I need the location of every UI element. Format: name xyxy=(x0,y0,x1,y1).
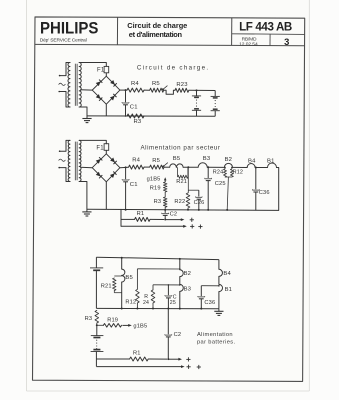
header divider page cell xyxy=(269,34,271,46)
capacitor C1 (charger) xyxy=(125,90,127,102)
svg-text:F1: F1 xyxy=(97,67,105,73)
wire B2 to B4 xyxy=(233,166,248,168)
svg-text:g1B5: g1B5 xyxy=(147,177,161,183)
resistor R3 (mains) xyxy=(163,197,167,207)
resistor R12 (battery) xyxy=(136,269,138,290)
heaters B4 B1 column (battery) xyxy=(218,260,220,270)
capacitor C2 (mains) xyxy=(164,210,166,213)
bridge diode D4 xyxy=(110,94,117,101)
fuse F1 (mains) xyxy=(104,144,109,151)
wire secondary top to fuse xyxy=(79,63,106,67)
svg-text:C2: C2 xyxy=(174,332,182,338)
capacitor C25 (mains) xyxy=(207,167,209,178)
transformer secondary winding xyxy=(79,63,81,108)
wire B4 to B1 xyxy=(255,167,267,169)
svg-text:C36: C36 xyxy=(259,190,270,196)
svg-text:R19: R19 xyxy=(107,318,118,324)
node g1B5 arrow (battery) xyxy=(122,324,129,326)
diode bridge (mains) xyxy=(92,154,120,182)
wire secondary bottom down xyxy=(79,107,87,116)
bridge diode D8 xyxy=(110,171,117,178)
wire B3 to B2 xyxy=(207,166,224,168)
heater B3 (mains) xyxy=(198,163,207,167)
junction dots on rail (mains) xyxy=(164,209,166,211)
resistor R1 (battery) xyxy=(130,357,149,361)
svg-text:Circuit de charge: Circuit de charge xyxy=(127,21,187,30)
wire secondary tap to bridge (mains) xyxy=(80,166,92,169)
wire bridge bottom down xyxy=(105,104,107,116)
junction dots (battery rail) xyxy=(121,308,123,310)
svg-text:B3: B3 xyxy=(203,156,211,162)
capacitor C36 (mains) xyxy=(255,168,257,190)
wire bridge+ to R4 xyxy=(120,89,127,91)
svg-text:R21: R21 xyxy=(101,283,112,289)
bridge diode D2 xyxy=(110,80,117,87)
plus mark A (battery) xyxy=(186,358,190,360)
svg-text:R5: R5 xyxy=(152,158,160,164)
plus marks B (battery) xyxy=(187,366,191,368)
R5 wiper arrow (mains) xyxy=(163,163,168,167)
R5 wiper arrow xyxy=(162,86,167,90)
resistor R22 (mains) xyxy=(187,167,189,193)
svg-text:R3: R3 xyxy=(154,199,162,205)
wire R5 to B5 xyxy=(164,166,170,168)
svg-text:12.02.54: 12.02.54 xyxy=(239,41,258,47)
svg-text:R12: R12 xyxy=(125,299,136,305)
battery BT2 (charged cells) xyxy=(214,91,216,97)
svg-text:Alimentation: Alimentation xyxy=(197,332,233,338)
wire R19 to R3 xyxy=(164,192,166,197)
svg-text:R19: R19 xyxy=(150,186,161,192)
wire fuse to bridge top (mains) xyxy=(105,150,107,154)
ground (charger) xyxy=(86,116,88,119)
wire primary top lead xyxy=(60,140,70,151)
output arrow B (mains) xyxy=(121,225,185,227)
output line A (battery) xyxy=(96,358,129,360)
svg-text:C1: C1 xyxy=(130,105,138,111)
svg-text:Dép' SERVICE Central: Dép' SERVICE Central xyxy=(40,37,87,43)
svg-text:et d'alimentation: et d'alimentation xyxy=(129,30,183,39)
wire primary bottom lead xyxy=(60,92,70,108)
capacitor C2 (battery) xyxy=(167,309,169,335)
node g1B5 arrow (mains) xyxy=(164,179,166,182)
fuse F1 xyxy=(104,66,109,72)
header divider 1 xyxy=(116,17,118,45)
resistor R23 xyxy=(175,88,189,92)
wire fuse to bridge top xyxy=(105,73,107,76)
output arrow A (battery) xyxy=(148,358,167,360)
bridge diode D5 xyxy=(96,157,103,164)
plus mark A (mains) xyxy=(190,219,194,221)
page edge bottom xyxy=(27,390,310,392)
top rail (battery) xyxy=(96,257,218,259)
wire primary top lead xyxy=(60,63,70,76)
svg-text:B4: B4 xyxy=(248,159,256,165)
svg-text:B5: B5 xyxy=(125,275,133,281)
resistor R4 (mains) xyxy=(129,165,144,169)
resistor R21 (mains, parallel B5) xyxy=(177,167,179,177)
wire primary bottom lead xyxy=(60,168,70,182)
wire R12 top bar xyxy=(137,268,179,270)
wire secondary tap to bridge xyxy=(80,89,92,91)
transformer primary winding xyxy=(68,63,70,108)
AC mains symbol xyxy=(59,83,65,85)
header bottom rule xyxy=(35,44,305,45)
resistor R3 (battery) xyxy=(95,310,99,323)
AC mains symbol xyxy=(59,159,65,161)
svg-text:B5: B5 xyxy=(173,156,181,162)
battery BT1 (charged cells) xyxy=(196,90,198,96)
resistors R24 R12 (parallel under B2) xyxy=(224,167,226,168)
svg-text:PHILIPS: PHILIPS xyxy=(40,20,99,38)
capacitor C25 (battery) xyxy=(167,285,169,295)
header divider 2 xyxy=(231,18,233,46)
resistor R5 (mains) xyxy=(150,165,164,169)
wire rail to output taps (mains) xyxy=(120,209,122,226)
resistor R3 (charger, in rail) xyxy=(127,114,144,118)
wire bridge+ to R4 (mains) xyxy=(120,166,129,169)
svg-text:g1B5: g1B5 xyxy=(133,324,147,330)
page edge right xyxy=(308,0,310,391)
capacitor C36 (battery) xyxy=(201,285,219,287)
svg-text:C26: C26 xyxy=(194,200,205,206)
svg-text:R24: R24 xyxy=(213,170,224,176)
heater B4 (mains) xyxy=(247,164,255,168)
battery cells column (battery supply) xyxy=(96,324,98,326)
wire jog R5 to R23 xyxy=(164,90,175,94)
negative rail (mains) xyxy=(87,209,279,210)
svg-text:R4: R4 xyxy=(132,158,140,164)
svg-text:B4: B4 xyxy=(223,271,231,277)
svg-text:R22: R22 xyxy=(174,199,185,205)
wire R4-R5 (mains) xyxy=(144,166,150,168)
output arrow B (battery) xyxy=(96,366,182,368)
svg-text:R4: R4 xyxy=(131,81,139,87)
svg-text:25: 25 xyxy=(170,300,176,306)
page edge left xyxy=(26,0,28,391)
diode bridge (charger) xyxy=(92,76,120,104)
header divider LF box horizontal xyxy=(232,33,305,36)
resistor R19 (mains) xyxy=(163,182,167,192)
svg-text:R1: R1 xyxy=(137,211,145,217)
capacitor C26 (mains) xyxy=(188,189,199,191)
svg-text:R21: R21 xyxy=(176,179,187,185)
svg-text:R23: R23 xyxy=(176,82,188,88)
wire secondary bottom down (mains) xyxy=(79,182,87,210)
wire R23 to batteries xyxy=(189,89,215,91)
svg-text:B2: B2 xyxy=(225,157,233,163)
bridge diode D3 xyxy=(96,94,103,101)
svg-text:3: 3 xyxy=(284,36,289,47)
svg-text:24: 24 xyxy=(143,300,149,306)
resistor R21 (battery, parallel B5) xyxy=(114,275,121,277)
wire secondary top to fuse (mains) xyxy=(79,140,106,143)
wire B5 to B3 xyxy=(183,166,198,168)
resistor R5 (charger) xyxy=(150,88,164,92)
svg-text:R3: R3 xyxy=(85,316,93,322)
bridge diode D6 xyxy=(110,157,117,164)
transformer core xyxy=(74,64,76,106)
resistor R1 (mains) xyxy=(135,217,150,221)
bottom rail (battery) xyxy=(96,307,218,309)
svg-text:C36: C36 xyxy=(204,300,215,306)
svg-text:R5: R5 xyxy=(152,81,160,87)
svg-text:R12: R12 xyxy=(233,170,244,176)
svg-text:C25: C25 xyxy=(215,181,226,187)
capacitor C1 (mains) xyxy=(125,167,127,179)
outer frame xyxy=(33,17,305,382)
transformer secondary winding xyxy=(79,140,81,181)
left battery lead xyxy=(95,257,97,268)
svg-text:R3: R3 xyxy=(134,119,142,125)
wire R24/C25 top bar xyxy=(153,284,180,286)
svg-text:Alimentation par secteur: Alimentation par secteur xyxy=(141,145,220,152)
svg-text:C1: C1 xyxy=(130,182,138,188)
output line A (mains) xyxy=(121,218,135,220)
heater B2 (mains) xyxy=(224,163,232,167)
bottom rail (charger) xyxy=(87,115,215,117)
svg-text:C2: C2 xyxy=(170,212,178,218)
svg-text:LF 443 AB: LF 443 AB xyxy=(239,20,292,33)
svg-text:par batteries.: par batteries. xyxy=(197,340,236,346)
battery cell B (single) xyxy=(90,267,103,269)
svg-text:R1: R1 xyxy=(133,350,141,356)
svg-text:B2: B2 xyxy=(184,271,192,277)
resistor R4 (charger) xyxy=(127,88,144,92)
wire B1 down to rail xyxy=(277,168,279,211)
ground (battery) xyxy=(218,309,220,312)
resistor R24 (battery) xyxy=(152,285,154,290)
wire R4-R5 xyxy=(144,89,150,91)
output arrow A (mains) xyxy=(150,218,164,220)
ground (mains) xyxy=(86,209,88,212)
svg-text:B1: B1 xyxy=(225,287,233,293)
heater B5 (mains) xyxy=(170,164,177,167)
bridge diode D7 xyxy=(96,172,103,179)
wire bridge bottom down (mains) xyxy=(105,182,107,210)
svg-text:B1: B1 xyxy=(267,159,275,165)
plus marks B (mains) xyxy=(190,225,194,227)
heaters B2 B3 column (battery) xyxy=(179,259,181,270)
heater B1 (mains) xyxy=(268,163,277,168)
transformer primary winding xyxy=(68,140,70,181)
resistor R19 (battery) xyxy=(97,324,104,326)
transformer core xyxy=(74,142,76,181)
bridge diode D1 xyxy=(96,80,103,87)
svg-text:F1: F1 xyxy=(96,145,104,151)
heater B5 (battery) xyxy=(121,258,123,269)
svg-text:B3: B3 xyxy=(184,286,192,292)
